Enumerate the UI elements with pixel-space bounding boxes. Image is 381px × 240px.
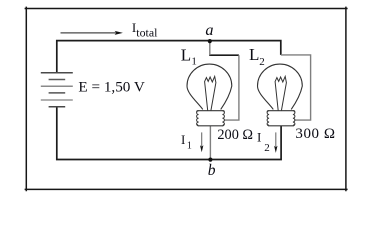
- svg-text:L: L: [249, 45, 259, 64]
- svg-text:b: b: [208, 162, 216, 179]
- svg-text:2: 2: [264, 142, 270, 154]
- svg-text:I: I: [257, 129, 261, 144]
- svg-text:total: total: [136, 26, 158, 40]
- svg-text:2: 2: [259, 56, 265, 68]
- svg-text:E = 1,50 V: E = 1,50 V: [78, 79, 145, 96]
- svg-text:a: a: [205, 20, 213, 39]
- svg-text:1: 1: [187, 140, 192, 151]
- svg-text:I: I: [181, 132, 185, 147]
- svg-text:L: L: [181, 45, 191, 64]
- svg-text:200 Ω: 200 Ω: [217, 127, 253, 143]
- svg-text:300 Ω: 300 Ω: [295, 126, 335, 142]
- svg-text:1: 1: [191, 55, 197, 67]
